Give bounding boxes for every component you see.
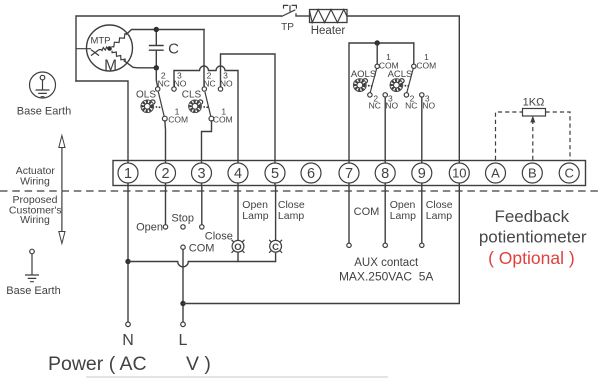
svg-text:potientiometer: potientiometer bbox=[479, 227, 587, 246]
terminal 3 bbox=[192, 163, 212, 183]
switch OLS bbox=[156, 87, 177, 121]
terminal 10 bbox=[449, 163, 469, 183]
wire terminal 3 to Close contact bbox=[201, 186, 203, 225]
svg-text:B: B bbox=[528, 166, 537, 181]
wire N rail to lamps (hop over L wire) bbox=[128, 252, 276, 267]
svg-text:L: L bbox=[179, 332, 188, 349]
svg-text:AOLS: AOLS bbox=[351, 69, 376, 80]
wire AUX open lamp stub (terminal 8) bbox=[384, 186, 386, 244]
svg-text:ACLS: ACLS bbox=[388, 69, 413, 80]
terminal C bbox=[559, 163, 579, 183]
wire top loop: left vertical and top horizontal to TP bbox=[76, 16, 282, 81]
contact Open bbox=[163, 225, 167, 229]
svg-text:C: C bbox=[565, 166, 574, 181]
svg-text:Open: Open bbox=[136, 222, 163, 234]
svg-text:NC: NC bbox=[405, 101, 417, 111]
node cap bottom bbox=[154, 65, 159, 70]
node L junction bbox=[180, 301, 185, 306]
svg-text:NC: NC bbox=[369, 101, 381, 111]
wire OLS NO to terminal 4 with hops bbox=[174, 66, 238, 163]
svg-text:O: O bbox=[234, 242, 241, 253]
svg-text:3: 3 bbox=[197, 166, 205, 182]
svg-text:COM: COM bbox=[168, 114, 188, 124]
svg-text:Close: Close bbox=[205, 230, 233, 242]
svg-text:A: A bbox=[491, 166, 500, 181]
terminal 5 bbox=[265, 163, 285, 183]
bottom faint artifact line bbox=[86, 376, 388, 378]
potentiometer dashed wire A bbox=[496, 112, 523, 160]
wire OLS COM to terminal 2 bbox=[164, 121, 167, 163]
svg-text:C: C bbox=[272, 242, 279, 253]
contact AUX open stub end bbox=[383, 243, 387, 247]
svg-text:Wiring: Wiring bbox=[20, 214, 50, 226]
motor winding upper-right bbox=[112, 34, 128, 47]
wire terminal 7 up to AUX COM rail bbox=[349, 43, 414, 163]
svg-text:Lamp: Lamp bbox=[242, 210, 268, 222]
cam ACLS bbox=[390, 79, 409, 92]
svg-text:C: C bbox=[168, 41, 179, 58]
terminal A bbox=[486, 163, 506, 183]
contact AUX COM stub end bbox=[347, 243, 351, 247]
svg-text:NC: NC bbox=[158, 78, 170, 88]
arrow customer wiring (down) bbox=[59, 192, 65, 244]
wire CLS NO up and over to terminal 5 bbox=[221, 54, 276, 163]
terminal N bbox=[126, 322, 131, 327]
svg-text:N: N bbox=[122, 332, 134, 349]
potentiometer wiper arrow bbox=[530, 116, 535, 123]
svg-text:9: 9 bbox=[418, 166, 426, 182]
lamp Close (C) bbox=[269, 240, 282, 253]
wire AOLS COM drop bbox=[376, 43, 378, 64]
svg-text:Stop: Stop bbox=[171, 212, 194, 224]
svg-text:1: 1 bbox=[124, 166, 132, 182]
terminal L bbox=[181, 322, 186, 327]
wire TP to heater bbox=[296, 15, 310, 17]
potentiometer dashed wiper from B bbox=[532, 121, 534, 160]
svg-text:V ): V ) bbox=[186, 353, 211, 375]
heater R (resistive element) bbox=[310, 10, 348, 23]
wire terminal 5 to Close lamp bbox=[275, 186, 277, 241]
svg-text:Lamp: Lamp bbox=[390, 210, 416, 222]
thermal protector TP bbox=[282, 5, 297, 16]
terminal 4 bbox=[228, 163, 248, 183]
svg-text:CLS: CLS bbox=[182, 89, 202, 100]
svg-text:Heater: Heater bbox=[311, 25, 346, 37]
terminal strip box bbox=[113, 161, 586, 186]
wire cap bottom to OLS NC bbox=[156, 68, 157, 87]
svg-text:NO: NO bbox=[220, 78, 233, 88]
svg-text:NC: NC bbox=[203, 78, 215, 88]
node AUX rail bbox=[375, 40, 380, 45]
wire heater to terminal 10 bbox=[347, 16, 459, 163]
svg-text:4: 4 bbox=[234, 166, 242, 182]
potentiometer R 1K bbox=[523, 109, 546, 117]
cam AOLS bbox=[353, 79, 372, 92]
svg-text:Base Earth: Base Earth bbox=[6, 285, 60, 297]
label Base Earth (top) symbol bbox=[30, 72, 56, 98]
wire ACLS NO to terminal 9 bbox=[421, 97, 423, 163]
potentiometer dashed wire C bbox=[546, 112, 571, 160]
wire AUX close lamp stub (terminal 9) bbox=[421, 186, 423, 244]
motor center node bbox=[107, 46, 112, 51]
wire L rail to terminal 10 bbox=[183, 186, 459, 304]
node cap top bbox=[154, 27, 159, 32]
svg-text:COM: COM bbox=[354, 206, 380, 218]
svg-text:Lamp: Lamp bbox=[426, 210, 452, 222]
terminal 1 bbox=[118, 163, 138, 183]
svg-text:Lamp: Lamp bbox=[278, 210, 304, 222]
svg-text:Feedback: Feedback bbox=[494, 207, 569, 226]
svg-text:( Optional ): ( Optional ) bbox=[488, 248, 575, 268]
dashed separator line bbox=[0, 190, 600, 192]
contact COM bbox=[181, 245, 185, 249]
terminal 7 bbox=[339, 163, 359, 183]
svg-text:AUX contact: AUX contact bbox=[354, 257, 419, 269]
wire motor lower lead to cap bottom line bbox=[124, 61, 156, 68]
node N junction bbox=[125, 259, 130, 264]
motor M1 circle bbox=[87, 25, 133, 71]
svg-text:7: 7 bbox=[345, 166, 353, 182]
wire terminal 4 to Open lamp bbox=[237, 186, 239, 262]
svg-text:Power ( AC: Power ( AC bbox=[48, 353, 147, 375]
wire terminal 1 to N bbox=[127, 186, 129, 323]
wire cap top line down to CLS NC bbox=[203, 30, 205, 87]
MTP thermal element (cross) bbox=[91, 50, 99, 56]
svg-text:TP: TP bbox=[281, 22, 294, 33]
terminal 2 bbox=[156, 163, 176, 183]
wire ACLS COM drop bbox=[413, 43, 415, 64]
svg-text:Base Earth: Base Earth bbox=[17, 106, 71, 118]
cam OLS bbox=[141, 100, 161, 113]
svg-text:COM: COM bbox=[213, 114, 233, 124]
svg-text:Wiring: Wiring bbox=[20, 175, 50, 187]
wire motor upper lead to cap top line bbox=[127, 30, 205, 35]
svg-text:M: M bbox=[104, 58, 117, 75]
lamp Open (O) bbox=[232, 240, 245, 253]
wire AOLS NO to terminal 8 bbox=[384, 97, 386, 163]
switch CLS bbox=[202, 87, 223, 121]
wire step from left vertical to terminal 1 bbox=[76, 81, 128, 163]
svg-text:MAX.250VAC 5A: MAX.250VAC 5A bbox=[339, 269, 434, 283]
svg-text:NO: NO bbox=[174, 78, 187, 88]
switch ACLS bbox=[404, 64, 424, 97]
motor winding left bbox=[101, 47, 108, 50]
svg-text:OLS: OLS bbox=[136, 89, 156, 100]
capacitor C1 bbox=[150, 30, 164, 68]
terminal 9 bbox=[412, 163, 432, 183]
wire AUX COM stub (terminal 7) bbox=[348, 186, 350, 244]
terminal 8 bbox=[375, 163, 395, 183]
motor winding lower-right bbox=[112, 51, 125, 62]
svg-text:COM: COM bbox=[416, 60, 436, 70]
cam CLS bbox=[189, 100, 209, 113]
svg-text:COM: COM bbox=[189, 242, 215, 254]
svg-text:8: 8 bbox=[381, 166, 389, 182]
contact Close bbox=[200, 225, 204, 229]
terminal B bbox=[522, 163, 542, 183]
switch AOLS bbox=[368, 64, 388, 97]
svg-text:1KΩ: 1KΩ bbox=[523, 97, 545, 109]
svg-text:MTP: MTP bbox=[90, 35, 110, 46]
wire motor left lead to left vertical bbox=[76, 48, 101, 51]
arrow actuator wiring (up) bbox=[59, 136, 65, 191]
wires through terminal strip bbox=[128, 161, 459, 186]
terminal 6 bbox=[301, 163, 321, 183]
contact AUX close stub end bbox=[420, 243, 424, 247]
svg-text:5: 5 bbox=[271, 166, 279, 182]
earth symbol bottom bbox=[25, 249, 39, 282]
svg-text:6: 6 bbox=[307, 166, 315, 182]
contact Stop bbox=[181, 225, 185, 229]
wire terminal 2 to Open contact bbox=[165, 186, 167, 225]
wire COM to L bbox=[182, 249, 184, 322]
svg-text:NO: NO bbox=[422, 101, 435, 111]
svg-text:10: 10 bbox=[452, 166, 466, 181]
wire CLS COM to terminal 3 bbox=[202, 121, 212, 163]
svg-text:NO: NO bbox=[385, 101, 398, 111]
svg-text:2: 2 bbox=[161, 166, 169, 182]
